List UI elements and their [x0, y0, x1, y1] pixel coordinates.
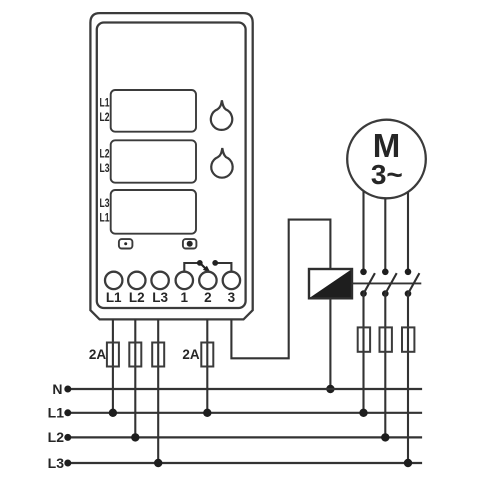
terminal L2 — [128, 272, 145, 289]
junction coil-N — [326, 385, 334, 393]
relay contact point (pole 3) — [212, 260, 218, 266]
bus L3 — [68, 462, 422, 464]
bus N left dot — [64, 386, 71, 393]
wire L1 terminal to L1 bus — [112, 319, 114, 412]
wire motor phase 1 — [362, 191, 364, 272]
terminal L3 — [151, 272, 168, 289]
svg-text:3~: 3~ — [371, 159, 403, 190]
contactor linkage line — [352, 282, 421, 284]
contact 3 blade — [408, 273, 419, 294]
svg-text:L2: L2 — [129, 290, 145, 305]
fuse F1 2A — [107, 343, 119, 367]
contact 3 bottom dot — [405, 290, 412, 297]
terminal 1 — [176, 272, 193, 289]
fuse F2 — [129, 343, 141, 367]
svg-text:1: 1 — [181, 290, 189, 305]
contact 2 blade — [385, 273, 396, 294]
device U1 inner panel — [97, 23, 246, 309]
junction L3 / phase 3 — [404, 459, 412, 467]
wire L2 terminal to L2 bus — [134, 319, 136, 437]
button icon 1 — [119, 239, 132, 248]
motor M1 circle — [347, 120, 426, 199]
display window 3 — [111, 190, 196, 234]
button icon 2 — [183, 239, 197, 248]
relay switch blade — [200, 263, 207, 270]
junction L1 / phase 1 — [359, 409, 367, 417]
junction L1 / terminal 2 wire — [203, 409, 211, 417]
contact 3 top dot — [405, 269, 412, 276]
svg-text:L3: L3 — [152, 290, 168, 305]
device U1 outer housing — [90, 13, 252, 319]
junction L1 / device — [109, 409, 117, 417]
wire terminal 3 to contactor coil — [231, 220, 330, 359]
display window 1 — [111, 90, 196, 132]
relay contact wire from terminal 3 — [216, 263, 232, 272]
relay contact point (pole 1) — [197, 260, 203, 266]
fuse F7 — [402, 327, 414, 351]
fuse F6 — [380, 327, 392, 351]
bus N — [68, 388, 422, 390]
svg-text:L2: L2 — [100, 149, 110, 161]
junction L3 / device — [154, 459, 162, 467]
wire motor phase 2 — [384, 198, 386, 271]
fuse F3 — [152, 343, 164, 367]
svg-text:L2: L2 — [100, 112, 110, 124]
svg-text:3: 3 — [228, 290, 236, 305]
terminal L1 — [105, 272, 122, 289]
svg-text:L1: L1 — [106, 290, 122, 305]
svg-text:L1: L1 — [100, 212, 110, 224]
fuse F4 2A — [201, 343, 213, 367]
terminal 3 — [223, 272, 240, 289]
svg-text:L3: L3 — [48, 455, 65, 471]
wire contact 1 to L1 bus — [362, 294, 364, 413]
wire terminal 2 to L1 bus — [206, 319, 208, 412]
svg-text:L1: L1 — [100, 97, 110, 109]
display window 2 — [111, 140, 196, 182]
drop icon 2 — [211, 148, 232, 178]
junction L2 / device — [131, 433, 139, 441]
wire L3 terminal to L3 bus — [157, 319, 159, 463]
contact 2 top dot — [382, 269, 389, 276]
contact 1 blade — [364, 273, 375, 294]
svg-text:2A: 2A — [182, 347, 200, 362]
bus L2 left dot — [64, 434, 71, 441]
bus L1 — [68, 412, 422, 414]
terminal 2 — [199, 272, 216, 289]
junction L2 / phase 2 — [381, 433, 389, 441]
relay contact wire from terminal 1 — [184, 263, 199, 272]
contact 2 bottom dot — [382, 290, 389, 297]
wire contact 2 to L2 bus — [384, 294, 386, 438]
fuse F5 — [358, 327, 370, 351]
wire motor phase 3 — [407, 192, 409, 272]
svg-text:L3: L3 — [100, 198, 110, 210]
contact 1 top dot — [360, 269, 367, 276]
svg-text:2A: 2A — [89, 347, 107, 362]
contactor coil K1 — [309, 269, 352, 298]
svg-text:2: 2 — [204, 290, 212, 305]
relay blade arrowhead — [203, 266, 211, 274]
drop icon 1 — [211, 100, 232, 130]
wire coil to N bus — [329, 298, 331, 389]
svg-text:L2: L2 — [48, 429, 65, 445]
bus L3 left dot — [64, 460, 71, 467]
bus L1 left dot — [64, 409, 71, 416]
contact 1 bottom dot — [360, 290, 367, 297]
bus L2 — [68, 436, 422, 438]
svg-text:L1: L1 — [48, 405, 65, 421]
svg-text:N: N — [52, 381, 62, 397]
svg-text:L3: L3 — [100, 163, 110, 175]
wire contact 3 to L3 bus — [407, 294, 409, 463]
